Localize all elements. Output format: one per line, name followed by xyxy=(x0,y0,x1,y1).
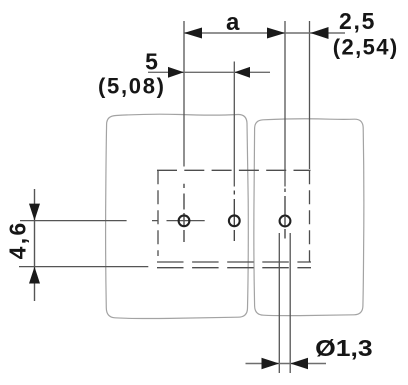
dashed housing bottom line 2 xyxy=(157,267,311,269)
hole 2 xyxy=(229,215,240,226)
dimension line a (and 2,5 tail) xyxy=(184,32,345,34)
arrow a right / 2,5 left xyxy=(267,28,285,39)
arrow diameter left xyxy=(262,358,280,369)
extension line 4,6 bottom xyxy=(19,266,148,268)
dashed housing outline left edge xyxy=(157,170,159,256)
arrow 2,5 right xyxy=(310,27,328,39)
dimension line diameter 1,3 xyxy=(246,363,327,365)
arrow diameter right xyxy=(290,358,308,369)
svg-text:4,6: 4,6 xyxy=(5,223,31,260)
body left (terminal block outline) xyxy=(106,114,249,318)
svg-text:(2,54): (2,54) xyxy=(333,35,398,60)
extension line hole1 top xyxy=(183,21,185,167)
dimension line 5 xyxy=(148,71,270,73)
extension line drill right xyxy=(289,233,291,373)
dashed housing outline top edge xyxy=(157,169,311,171)
centerline hole2 vertical (dash-dot) xyxy=(233,191,235,242)
svg-text:(5,08): (5,08) xyxy=(98,74,164,99)
centerline hole1 horizontal (dash-dot from 4,6 dimension) xyxy=(20,220,205,222)
svg-text:2,5: 2,5 xyxy=(339,8,375,34)
svg-text:5: 5 xyxy=(145,49,158,75)
extension line housing right top xyxy=(309,21,311,169)
arrow 4,6 top xyxy=(29,204,40,221)
svg-text:a: a xyxy=(226,9,240,36)
extension line drill left xyxy=(278,233,280,373)
centerline hole1 vertical (dash-dot) xyxy=(183,184,185,242)
dashed housing bottom line 1 xyxy=(157,261,311,263)
extension line hole3 top xyxy=(284,21,286,187)
dimension line 4,6 xyxy=(34,189,36,301)
body right (terminal block outline) xyxy=(254,119,364,316)
extension line hole2 top xyxy=(233,62,235,187)
hole 3 xyxy=(280,216,291,227)
arrow 5 left xyxy=(168,67,184,78)
hole 1 xyxy=(179,215,190,226)
dashed housing outline right edge xyxy=(309,170,311,262)
arrow a left xyxy=(184,28,202,39)
svg-text:Ø1,3: Ø1,3 xyxy=(315,335,373,361)
arrow 4,6 bottom xyxy=(29,267,40,284)
arrow 5 right xyxy=(234,67,250,78)
centerline hole3 vertical (dash-dot) xyxy=(284,189,286,239)
